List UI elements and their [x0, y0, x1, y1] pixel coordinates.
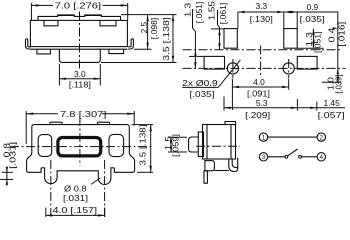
svg-text:4: 4 [320, 154, 324, 161]
svg-text:[.035]: [.035] [190, 89, 215, 99]
svg-text:5.3: 5.3 [256, 98, 268, 108]
svg-text:1.55: 1.55 [207, 1, 217, 20]
svg-text:[.039]: [.039] [334, 75, 344, 94]
svg-text:[.035]: [.035] [300, 14, 325, 24]
svg-text:3.5 [.138]: 3.5 [.138] [137, 125, 147, 166]
svg-text:2x Ø0.9: 2x Ø0.9 [182, 78, 218, 88]
svg-text:4.0: 4.0 [253, 77, 265, 87]
svg-text:2.5: 2.5 [139, 22, 149, 34]
svg-text:Ø 0.8: Ø 0.8 [64, 184, 87, 194]
svg-text:[.098]: [.098] [149, 18, 159, 40]
svg-text:[.051]: [.051] [194, 2, 204, 24]
svg-text:3.3: 3.3 [255, 1, 267, 11]
svg-text:2: 2 [320, 135, 324, 142]
svg-text:[.031]: [.031] [8, 142, 18, 169]
svg-text:1.45: 1.45 [323, 98, 340, 108]
svg-text:[.209]: [.209] [245, 110, 270, 120]
svg-text:3: 3 [262, 154, 266, 161]
svg-text:[.061]: [.061] [218, 3, 228, 25]
svg-text:[.051]: [.051] [313, 32, 323, 54]
svg-text:[.091]: [.091] [247, 88, 270, 98]
svg-text:4.0 [.157]: 4.0 [.157] [53, 205, 98, 215]
svg-text:7.0 [.276]: 7.0 [.276] [55, 0, 102, 10]
svg-text:3.5 [.138]: 3.5 [.138] [161, 17, 171, 61]
svg-text:1: 1 [262, 135, 266, 142]
svg-text:[.016]: [.016] [337, 22, 347, 47]
svg-text:1.3: 1.3 [183, 2, 193, 17]
svg-text:3.0: 3.0 [74, 69, 86, 79]
svg-text:[.057]: [.057] [318, 110, 345, 120]
svg-text:0.4: 0.4 [326, 27, 336, 42]
svg-text:[.059]: [.059] [170, 134, 180, 157]
svg-text:[.118]: [.118] [69, 80, 91, 90]
svg-text:[.031]: [.031] [63, 193, 88, 203]
svg-text:7.8 [.307]: 7.8 [.307] [60, 109, 107, 119]
svg-text:0.9: 0.9 [307, 2, 319, 12]
svg-text:[.130]: [.130] [250, 14, 273, 24]
